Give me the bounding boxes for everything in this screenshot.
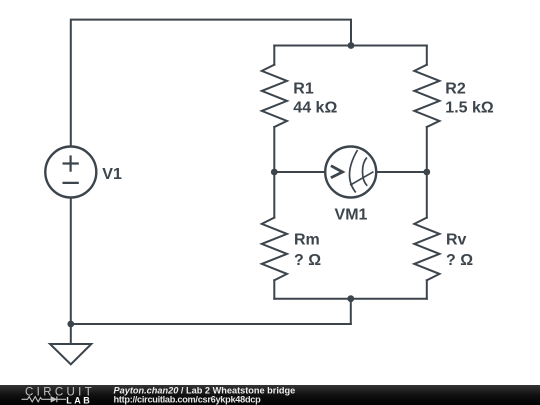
wire middle right from voltmeter xyxy=(376,171,427,173)
resistor R1 xyxy=(262,65,287,127)
svg-text:LAB: LAB xyxy=(66,395,92,405)
ground xyxy=(50,344,91,364)
node dot top center xyxy=(348,42,355,49)
svg-text:? Ω: ? Ω xyxy=(446,252,473,269)
node dot ground left xyxy=(67,321,74,328)
svg-text:V1: V1 xyxy=(102,166,122,183)
wire R1 bottom lead xyxy=(273,127,275,172)
wire Rm bottom lead xyxy=(273,280,275,298)
wire second row between R1 and R2 tops xyxy=(274,45,427,47)
svg-text:R2: R2 xyxy=(445,80,466,97)
wire Rm top lead xyxy=(273,172,275,218)
node dot middle left xyxy=(271,169,278,176)
resistor R2 xyxy=(414,65,439,127)
wire Rv top lead xyxy=(426,172,428,218)
CircuitLab logo resistor squiggle xyxy=(22,397,51,402)
resistor Rv xyxy=(414,218,439,281)
svg-text:44 kΩ: 44 kΩ xyxy=(293,100,337,117)
wire ground row to V1 xyxy=(71,323,351,325)
svg-text:VM1: VM1 xyxy=(335,206,368,223)
wire V1 bottom lead xyxy=(70,198,72,325)
wire middle left to voltmeter xyxy=(274,171,325,173)
wire ground stub xyxy=(70,324,72,344)
svg-text:Rm: Rm xyxy=(294,232,320,249)
svg-text:http://circuitlab.com/csr6ykpk: http://circuitlab.com/csr6ykpk48dcp xyxy=(114,394,262,404)
node dot middle right xyxy=(423,169,430,176)
wire bottom bridge row xyxy=(274,298,427,300)
op-amp? no: voltmeter VM1 xyxy=(325,147,376,198)
node dot bottom center xyxy=(347,295,354,302)
wire top from V1 to center drop xyxy=(71,20,351,147)
wire R2 bottom lead xyxy=(426,127,428,172)
CircuitLab logo diode xyxy=(51,396,66,402)
wire R1 top lead xyxy=(273,46,275,65)
wire center drop to ground row xyxy=(350,299,352,324)
svg-text:1.5 kΩ: 1.5 kΩ xyxy=(445,100,494,117)
svg-text:? Ω: ? Ω xyxy=(294,252,321,269)
svg-text:R1: R1 xyxy=(293,80,314,97)
resistor Rm xyxy=(262,218,287,281)
svg-text:Rv: Rv xyxy=(446,232,467,249)
voltage source V1 xyxy=(45,147,96,198)
wire Rv bottom lead xyxy=(426,280,428,298)
wire R2 top lead xyxy=(426,46,428,65)
